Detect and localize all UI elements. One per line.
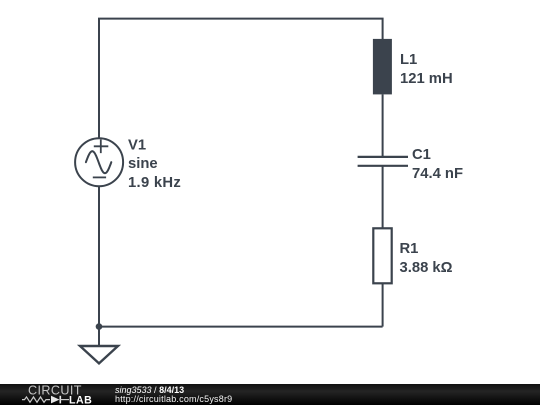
V1 plus polarity mark — [94, 140, 109, 154]
svg-text:1.9 kHz: 1.9 kHz — [128, 175, 181, 191]
svg-text:LAB: LAB — [69, 394, 92, 405]
V1 minus polarity mark — [93, 176, 106, 178]
logo diode glyph (triangle) — [51, 396, 60, 404]
resistor R1 (open box body) — [373, 228, 391, 283]
logo resistor zigzag glyph — [22, 397, 50, 402]
voltage source V1 (circle body) — [75, 138, 123, 186]
svg-text:3.88 kΩ: 3.88 kΩ — [400, 260, 453, 276]
wire: R1 bottom to bottom rail — [382, 283, 384, 327]
V1 sine waveform glyph — [86, 151, 111, 173]
svg-text:121 mH: 121 mH — [400, 71, 453, 87]
svg-text:C1: C1 — [412, 147, 431, 163]
wire: bottom rail from ground node to right rail — [99, 326, 383, 328]
ground symbol (triangle) — [80, 346, 118, 363]
node: junction dot where ground taps the bottom rail — [96, 323, 103, 330]
svg-text:V1: V1 — [128, 137, 146, 153]
svg-text:http://circuitlab.com/c5ys8r9: http://circuitlab.com/c5ys8r9 — [115, 394, 232, 404]
inductor L1 (solid bar body) — [373, 39, 392, 95]
logo wire into LAB — [60, 399, 69, 401]
wire: L1 bottom to C1 top plate — [382, 94, 384, 156]
wire: left rail from V1 bottom down to ground tap — [98, 186, 100, 346]
wire: C1 bottom plate to R1 top — [382, 167, 384, 229]
logo diode cathode bar — [59, 396, 61, 404]
svg-text:74.4 nF: 74.4 nF — [412, 166, 463, 182]
svg-text:R1: R1 — [400, 241, 419, 257]
svg-text:sine: sine — [128, 156, 158, 172]
capacitor C1 (two plates) — [358, 156, 408, 158]
svg-text:L1: L1 — [400, 52, 417, 68]
wire: top rail from V1 top-left corner to inductor top — [99, 19, 383, 139]
